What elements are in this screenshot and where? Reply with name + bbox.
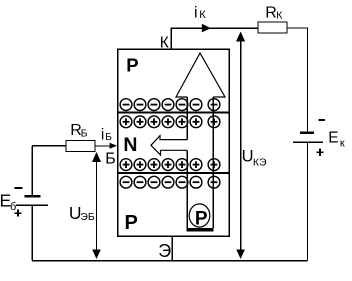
wire: RB to base terminal <box>95 145 111 147</box>
wire: collector riser from box top to iK wire <box>170 28 172 50</box>
wire: left vertical down to EB battery <box>31 146 33 195</box>
svg-text:к: к <box>340 137 345 149</box>
current arrow iK (filled arrowhead on collector wire) <box>202 24 211 33</box>
wire: iK horizontal wire to RK <box>171 27 258 29</box>
wire: base wire from left corner to RB <box>32 145 66 147</box>
label minus sign of EB <box>15 187 23 189</box>
svg-text:К: К <box>199 9 206 21</box>
label plus sign of EK <box>316 149 323 156</box>
svg-text:Э: Э <box>158 241 171 261</box>
svg-text:P: P <box>125 212 138 234</box>
junction line: emitter junction <box>118 172 229 174</box>
depletion charges: plus ions row (emitter junction, N side) <box>120 159 220 171</box>
resistor RB <box>66 141 95 152</box>
svg-text:ЭБ: ЭБ <box>80 211 95 223</box>
svg-text:Б: Б <box>105 151 116 168</box>
depletion charges: plus ions row (collector junction, N side) <box>120 116 220 128</box>
voltage arrow UKE (double headed, between collector wire and bottom rail) <box>236 32 245 260</box>
wire: RK to top-right corner and down to EK battery <box>287 28 308 132</box>
battery EB negative plate (short thick) <box>24 195 40 198</box>
label plus sign of EB <box>15 210 22 217</box>
transistor body (p-n-p structure box) <box>118 49 229 236</box>
svg-text:E: E <box>328 129 338 146</box>
hole flow arrow (big upward arrow from emitter to collector) <box>176 53 225 228</box>
wire: emitter lead from box bottom to bottom rail <box>171 236 173 261</box>
wire: EB battery down to bottom rail <box>31 206 33 261</box>
svg-text:i: i <box>194 4 198 21</box>
wire: bottom emitter rail <box>32 260 307 262</box>
svg-text:i: i <box>101 127 104 144</box>
svg-text:б: б <box>10 201 16 213</box>
junction line: collector junction <box>118 112 229 114</box>
battery EK positive plate (long thin) <box>293 142 323 144</box>
svg-text:P: P <box>195 208 208 229</box>
svg-text:P: P <box>126 54 138 75</box>
wire: EK battery down to bottom-right corner <box>307 143 309 261</box>
svg-text:К: К <box>276 10 283 22</box>
base recombination arrow (branch to the left in N region) <box>151 136 187 155</box>
svg-text:N: N <box>123 134 137 156</box>
battery EB positive plate (long thin) <box>16 204 48 206</box>
svg-text:Б: Б <box>81 127 88 139</box>
svg-text:КЭ: КЭ <box>253 157 267 169</box>
current arrow iB (filled arrowhead at base terminal) <box>110 143 117 149</box>
label minus sign of EK <box>319 119 326 121</box>
svg-text:R: R <box>265 4 277 21</box>
depletion charges: minus ions row (emitter junction, P side) <box>120 176 220 188</box>
voltage arrow UEB (double headed, between base wire and bottom rail) <box>92 152 101 259</box>
emitter contact bar (thick) <box>187 228 214 232</box>
svg-text:Б: Б <box>105 132 112 143</box>
svg-text:К: К <box>160 35 169 52</box>
battery EK negative plate (short thick) <box>300 132 314 135</box>
depletion charges: minus ions row (collector junction, P side) <box>120 99 220 111</box>
resistor RK <box>258 22 287 33</box>
svg-text:U: U <box>242 147 254 165</box>
hole symbol (circled P near emitter contact) <box>189 204 210 230</box>
